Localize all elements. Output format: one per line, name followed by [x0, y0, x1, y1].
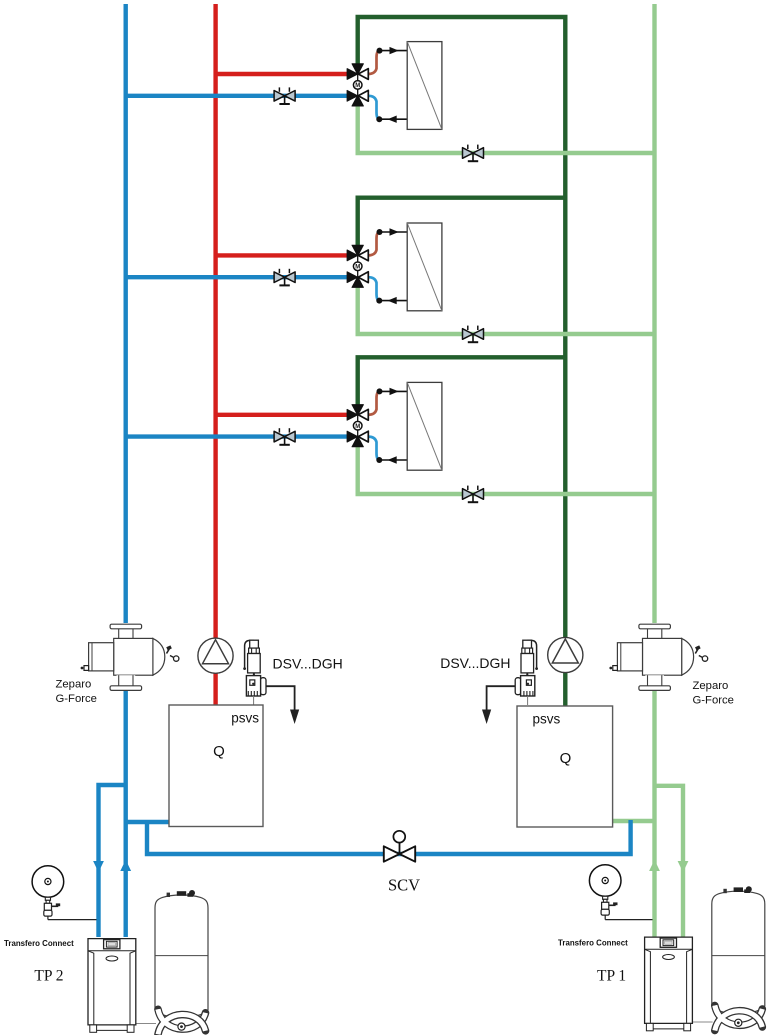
pipe: blue branch group 1	[126, 94, 350, 98]
svg-text:DSV...DGH: DSV...DGH	[440, 655, 510, 671]
label: Zeparo G-Force left	[56, 679, 97, 705]
expansion vessel left	[155, 890, 208, 1034]
label: DSV...DGH right	[440, 655, 510, 671]
svg-text:Zeparo: Zeparo	[56, 679, 92, 691]
gate valve on blue branch 3	[274, 428, 295, 445]
pipe: blue SCV line	[147, 820, 631, 854]
gate valve on light green return 1	[463, 145, 484, 162]
label: Zeparo G-Force right	[693, 680, 734, 706]
pressure gauge left (Transfero Connect)	[32, 866, 96, 920]
Zeparo G-Force separator left	[81, 623, 179, 690]
heat exchanger unit 2 with 3-way valve V2	[347, 223, 442, 311]
flow arrow: blue down	[93, 861, 104, 872]
TP 2 pressurisation unit	[88, 939, 156, 1033]
pipe: light green link from vessel Q right	[613, 819, 655, 823]
label: DSV...DGH left	[273, 655, 343, 671]
DSV...DGH safety valve right (mirrored)	[482, 640, 538, 724]
gate valve on light green return 2	[463, 326, 484, 343]
pipe: blue link to vessel Q left	[126, 820, 169, 824]
pipe: red branch group 3	[216, 413, 350, 417]
heat exchanger unit 3 with 3-way valve V3	[347, 382, 442, 470]
flow arrow: blue up	[120, 860, 131, 871]
svg-text:TP 2: TP 2	[34, 967, 63, 984]
svg-text:G-Force: G-Force	[56, 693, 97, 705]
label: TP 1	[597, 968, 626, 985]
DSV...DGH safety valve left	[243, 640, 299, 724]
label: Transfero Connect right	[558, 938, 628, 947]
Zeparo G-Force separator right	[609, 623, 707, 690]
SCV valve	[384, 831, 415, 862]
pipe: blue branch to TP 2	[99, 785, 126, 937]
svg-text:Transfero Connect: Transfero Connect	[558, 938, 628, 947]
pipe: light green return group 1	[358, 104, 655, 153]
gate valve on light green return 3	[463, 486, 484, 503]
expansion vessel right	[712, 886, 765, 1030]
label: SCV	[388, 876, 420, 895]
svg-text:Q: Q	[213, 743, 225, 760]
heat exchanger unit 1 with 3-way valve V1	[347, 42, 442, 130]
pipe: red riser	[213, 4, 217, 705]
pipe: light green branch to TP 1	[655, 786, 684, 937]
pipe: blue branch group 3	[126, 434, 350, 438]
pipe: blue main riser	[123, 4, 127, 937]
pressure gauge right (Transfero Connect)	[589, 865, 652, 920]
pipe: blue branch group 2	[126, 275, 350, 279]
pipe: dark green supply drop group 3	[358, 357, 566, 405]
flow arrow: light green up	[649, 860, 660, 871]
label: TP 2	[34, 967, 63, 984]
svg-text:SCV: SCV	[388, 876, 420, 895]
svg-text:TP 1: TP 1	[597, 968, 626, 985]
svg-text:Transfero Connect: Transfero Connect	[4, 939, 74, 948]
gate valve on blue branch 1	[274, 87, 295, 104]
vessel Q right	[517, 706, 613, 827]
pipe: light green return group 3	[358, 446, 655, 494]
svg-text:Q: Q	[560, 750, 572, 767]
pipe: light green return group 2	[358, 286, 655, 334]
flow arrow: light green down	[678, 861, 689, 872]
svg-text:G-Force: G-Force	[693, 694, 734, 706]
svg-text:psvs: psvs	[231, 711, 259, 726]
gate valve on blue branch 2	[274, 269, 295, 286]
svg-text:psvs: psvs	[533, 712, 561, 727]
pipe: red branch group 2	[216, 253, 350, 257]
pipe: light green main riser	[652, 4, 656, 937]
label: Transfero Connect left	[4, 939, 74, 948]
pump P1 on dark green riser	[548, 637, 583, 672]
vessel Q left	[169, 705, 263, 827]
svg-text:DSV...DGH: DSV...DGH	[273, 655, 343, 671]
pipe: red branch group 1	[216, 72, 350, 76]
pump P2 on red riser	[198, 638, 233, 673]
pipe: dark green supply drop group 2	[358, 198, 566, 247]
svg-text:Zeparo: Zeparo	[693, 680, 729, 692]
TP 1 pressurisation unit	[645, 937, 713, 1031]
pipe: dark green supply header group 1 + main riser	[358, 17, 566, 706]
